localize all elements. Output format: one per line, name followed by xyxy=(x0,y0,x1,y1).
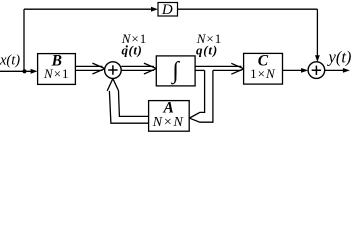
arrowhead (open vector) into integrator xyxy=(144,63,156,74)
wire: bottom line segment after branch to C xyxy=(213,69,242,71)
summer S2 circle xyxy=(308,62,325,79)
svg-text:q(t): q(t) xyxy=(122,42,143,57)
block D box xyxy=(158,3,178,17)
wire: feedback branch down right of integrator (right line) xyxy=(190,70,213,122)
wire: C output single line xyxy=(283,69,304,71)
arrowhead into D (filled) xyxy=(151,7,158,12)
svg-text:1×N: 1×N xyxy=(250,66,276,81)
wire: feedback branch down right of integrator (left line) xyxy=(190,70,205,118)
arrowhead into B (filled) xyxy=(31,69,38,74)
block A box xyxy=(149,101,190,132)
svg-text:A: A xyxy=(163,99,174,116)
svg-text:q(t): q(t) xyxy=(196,42,218,57)
svg-text:∫: ∫ xyxy=(170,58,180,85)
arrowhead into summer S2 (filled) xyxy=(301,68,308,73)
svg-text:x(t): x(t) xyxy=(0,52,20,68)
summer S1 circle xyxy=(105,62,122,79)
svg-text:N×N: N×N xyxy=(152,115,185,130)
svg-text:y(t): y(t) xyxy=(327,48,352,67)
wire: down to output summer xyxy=(316,9,318,56)
wire: A output bottom line to up-turn xyxy=(109,91,148,123)
wire: bottom line segment before branch xyxy=(195,69,205,71)
block B box xyxy=(38,54,76,85)
wire: output y(t) line xyxy=(325,69,345,71)
arrowhead into summer S2 top (filled) xyxy=(315,55,320,62)
arrowhead (open vector) up into S1 bottom xyxy=(107,79,118,91)
wire: top row to D xyxy=(24,8,152,10)
arrowhead (open vector) into S1 xyxy=(92,63,104,74)
wire: vector pair B to summer S1 xyxy=(75,65,102,67)
dot over q xyxy=(126,45,128,47)
node: branch dot on input xyxy=(22,69,26,73)
arrowhead (open vector) into C xyxy=(231,63,243,74)
wire: A output top line to up-turn xyxy=(119,91,149,117)
wire: vector pair S1 to integrator xyxy=(121,65,154,67)
wire: branch up to D row xyxy=(23,9,25,71)
arrowhead output (filled) xyxy=(343,68,350,73)
wire: D output to right xyxy=(178,8,318,10)
block C box xyxy=(244,53,283,84)
block integrator box xyxy=(156,56,195,86)
svg-text:D: D xyxy=(161,2,173,18)
wire: input x(t) horizontal line xyxy=(0,70,33,72)
wire: vector pair integrator to C (top line) xyxy=(195,65,241,67)
plus sign in S1 xyxy=(108,65,117,74)
svg-text:N×1: N×1 xyxy=(43,66,70,81)
plus sign in S2 xyxy=(312,66,321,75)
